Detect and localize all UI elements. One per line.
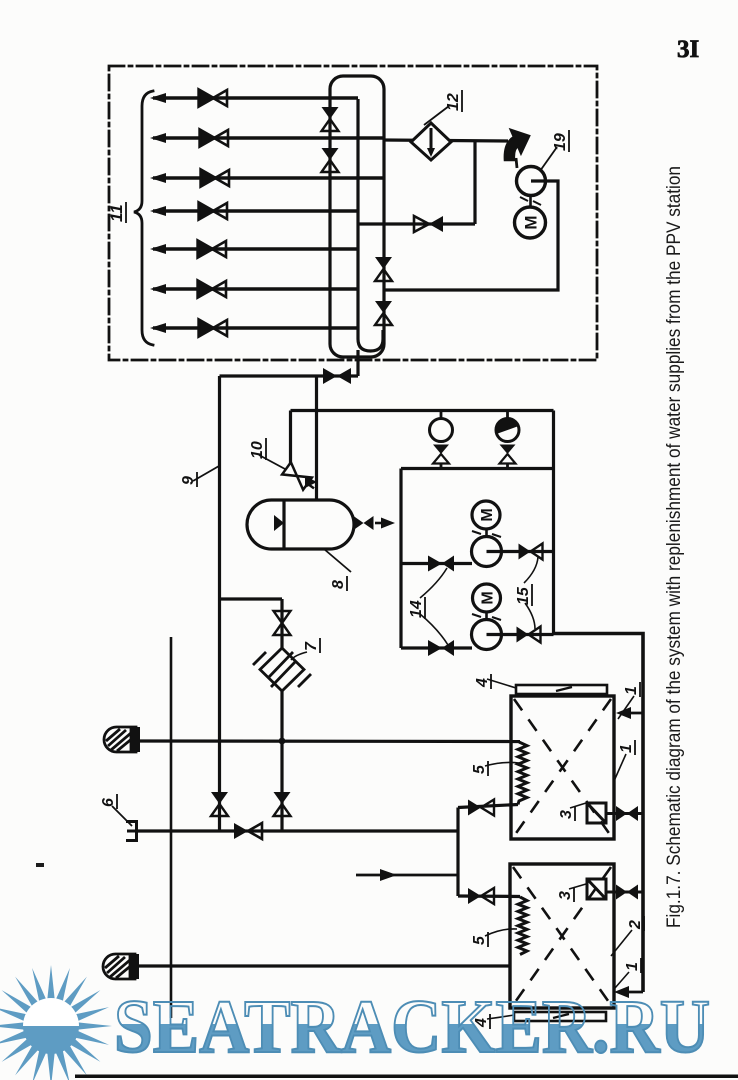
valve tank1 feed [468, 800, 494, 816]
check valve pump 15b [428, 640, 454, 656]
vessel 8 drum [247, 500, 354, 549]
check valve [414, 216, 443, 232]
filter 12 diamond [411, 123, 451, 160]
svg-text:3I: 3I [677, 36, 699, 63]
pump 19 circle [517, 167, 546, 196]
pump 15a discharge pipe [487, 550, 553, 553]
valve 10 branch drop [289, 411, 292, 465]
svg-text:11: 11 [107, 204, 126, 222]
label 2 tank2 [627, 916, 644, 931]
valve on line 5 [198, 241, 226, 257]
filter unit F1 [104, 727, 140, 752]
leader label 15 upper [524, 557, 538, 583]
valve tank2 feed [468, 888, 494, 904]
node vessel inlet arrow [305, 476, 317, 488]
stray mark [36, 863, 44, 867]
label 4 tank1 top [474, 674, 491, 689]
valve on header right edge upper [375, 257, 392, 281]
arrow into tank1 [620, 712, 643, 715]
gauge 1 stem [440, 411, 443, 420]
leader label 1 tank1 [618, 696, 634, 719]
gauge 1 [430, 419, 453, 442]
pump block right pipe [552, 411, 555, 634]
label 14 [408, 597, 425, 619]
heater coil tank 1 [518, 742, 527, 805]
filter unit F2 [103, 954, 139, 979]
pump 15b discharge pipe [487, 633, 554, 636]
leader label 1 tank2 [615, 972, 629, 988]
pump-motor coupling [529, 196, 532, 208]
tank 1 dashed cross [514, 699, 611, 836]
leader label 3 tank2 [569, 884, 586, 889]
svg-text:19: 19 [552, 133, 569, 151]
pump suction drop pipe [399, 469, 402, 649]
check valve pump 15a [428, 556, 454, 572]
valve pump 15b discharge [517, 627, 541, 643]
label 10 [249, 438, 266, 460]
leader label 4 tank1 [487, 679, 516, 688]
label 9 [180, 472, 197, 487]
label 12 [445, 90, 462, 112]
label 19 [552, 130, 569, 152]
heater 3 tank1 [587, 803, 606, 823]
svg-text:10: 10 [249, 441, 266, 459]
svg-text:7: 7 [303, 641, 320, 651]
node junction strainer line [279, 738, 286, 745]
tank 2 dashed cross [513, 867, 611, 1005]
node E supply end cap [126, 820, 137, 842]
svg-text:1: 1 [618, 744, 635, 753]
consumer line 4 [153, 209, 358, 212]
label 1 tank1 mid [618, 740, 635, 755]
svg-text:3: 3 [558, 810, 575, 819]
pump 15b suction pipe [401, 646, 472, 649]
pump inlet arrow [505, 130, 529, 160]
filter F2 outlet pipe [139, 964, 510, 967]
heater coil tank 2 [518, 897, 527, 955]
pump suction header pipe [291, 409, 554, 412]
wire header outlet horizontal pipe [220, 374, 359, 377]
leader label 2 [611, 930, 632, 956]
label 8 [330, 576, 347, 591]
valve on header left edge lower [322, 148, 339, 172]
distribution header outer manifold [330, 76, 384, 357]
heater 3 tank2 [587, 879, 606, 899]
valve heater1 line [616, 806, 638, 821]
vessel vent arrow [375, 522, 387, 525]
pump 15a [472, 537, 502, 567]
valve on line 2 [200, 130, 228, 146]
svg-text:M: M [480, 591, 497, 604]
vessel feed riser [315, 376, 318, 500]
motor of pump 15b [473, 584, 501, 612]
leader label 6 [112, 806, 132, 826]
strainer 7 diamond [253, 648, 311, 691]
label 1 tank2 [624, 958, 641, 973]
svg-text:Fig.1.7. Schematic diagram of: Fig.1.7. Schematic diagram of the system… [663, 166, 685, 928]
leader label 5 tank1 [485, 762, 519, 766]
tank feed bracket pipe [456, 808, 459, 897]
motor of pump 15a [472, 501, 500, 529]
check valve return pipe [358, 222, 475, 225]
label 11 [107, 202, 126, 223]
sun logo [0, 965, 112, 1080]
arrow into tank2 [618, 991, 643, 994]
pump return pipe [384, 181, 559, 290]
leader label 1 tank1 mid [614, 754, 626, 781]
leader label 5 tank2 [485, 929, 517, 936]
consumer line 2 [153, 136, 384, 139]
vessel level nozzle [274, 515, 284, 531]
consumer line 3 [153, 176, 384, 179]
leader label 4 tank2 [487, 1015, 514, 1019]
label 6 [100, 794, 117, 809]
tank2 feed pipe [458, 894, 520, 898]
label 5 tank1 [471, 761, 488, 776]
header inner divider [358, 99, 383, 351]
valve on line 6 [198, 281, 226, 297]
pump 15a suction pipe [401, 562, 472, 565]
label 4 tank2 bottom [473, 1014, 490, 1029]
main riser pipe left [218, 376, 221, 831]
gauge 1 valve [433, 445, 449, 464]
leader label 15 lower [525, 603, 535, 629]
valve on supply pipe [234, 823, 262, 839]
consumer line 5 [153, 247, 358, 250]
consumer line 1 [150, 90, 384, 336]
svg-text:15: 15 [515, 586, 532, 605]
header outlet drop pipe [356, 350, 359, 376]
tank1 feed pipe [458, 805, 518, 808]
sun disc [23, 998, 79, 1026]
svg-text:M: M [479, 508, 496, 521]
valve on riser left [211, 792, 228, 816]
bottom rule [75, 1075, 738, 1079]
leader label 7 [291, 652, 307, 660]
filter F1 outlet pipe [140, 739, 520, 743]
label 3 tank1 [558, 806, 575, 821]
valve on strainer drop [274, 792, 291, 816]
leader label 19 [540, 147, 557, 171]
pump 15b [472, 620, 502, 650]
tank 2 shell [510, 864, 614, 1008]
svg-text:3: 3 [557, 891, 574, 900]
svg-text:8: 8 [330, 580, 347, 589]
svg-text:6: 6 [100, 798, 117, 807]
vessel vent valve [354, 516, 374, 530]
leader label 14 lower [420, 614, 448, 645]
makeup inlet pipe with arrow [356, 874, 458, 877]
valve on header outlet [323, 368, 351, 384]
PPV station dash-dot border box [109, 66, 597, 360]
leader label 9 [193, 466, 219, 481]
valve on header right edge lower [375, 301, 392, 325]
tank 1 shell [511, 696, 614, 839]
gauge 2 stem [506, 411, 509, 420]
leader label 3 tank1 [570, 803, 586, 808]
svg-text:1: 1 [624, 962, 641, 971]
tank 2 bottom cover [514, 1012, 606, 1021]
label 1 tank1 top [623, 682, 640, 697]
motor of pump 19 [515, 207, 546, 238]
tank 1 top cover [516, 685, 607, 694]
svg-text:M: M [522, 215, 541, 229]
gauge header pipe [401, 467, 552, 470]
city water supply pipe [136, 829, 458, 832]
pump discharge pipe to tanks [554, 634, 644, 993]
svg-text:SEATRACKER.RU: SEATRACKER.RU [114, 985, 710, 1069]
valve on line 3 [201, 170, 229, 186]
svg-text:12: 12 [445, 93, 462, 111]
heater1 power pipe [606, 812, 643, 815]
svg-text:1: 1 [623, 686, 640, 695]
valve pump 15a discharge [519, 544, 543, 560]
valve on header left edge upper [322, 107, 339, 131]
label 5 tank2 [471, 932, 488, 947]
label 15 [515, 584, 532, 606]
strainer 7 drop pipe [280, 599, 283, 831]
consumer line 7 [153, 326, 358, 329]
label 7 [303, 638, 320, 653]
leader label 12 [424, 106, 449, 125]
filter feed pipe [384, 140, 508, 141]
consumer line 6 [153, 287, 358, 290]
heater2 power pipe [606, 891, 643, 894]
valve heater2 line [616, 885, 638, 900]
valve 10 inclined [282, 462, 318, 494]
leader label 14 upper [420, 568, 447, 598]
valve on line 7 [199, 320, 227, 336]
wire spare riser [170, 637, 173, 1018]
label 3 tank2 [557, 887, 574, 902]
leader label 10 [259, 455, 285, 469]
strainer 7 branch pipe [220, 597, 283, 600]
valve on line 1 [199, 90, 227, 106]
svg-text:2: 2 [627, 920, 644, 930]
gauge 2 [496, 419, 519, 442]
valve on line 4 [199, 203, 227, 219]
valve above strainer 7 [274, 611, 291, 635]
brace grouping consumers, label 11 [134, 91, 153, 345]
bypass pipe down [473, 141, 476, 224]
gauge 2 valve [500, 445, 516, 464]
leader label 8 [324, 549, 351, 572]
